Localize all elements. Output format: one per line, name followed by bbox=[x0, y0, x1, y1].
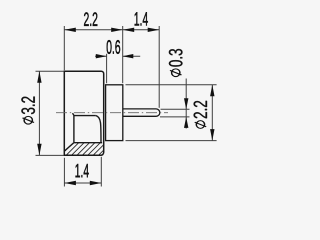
connector body (outer barrel, side view half-section) bbox=[64, 71, 103, 155]
centerline (axis) bbox=[56, 112, 168, 114]
dimension 1.4 (pin length) bbox=[123, 12, 160, 108]
insulator step cylinder bbox=[106, 85, 123, 141]
section hatching (body lower wall) bbox=[58, 142, 123, 158]
dimension 1.4 (body length, bottom) bbox=[64, 157, 101, 187]
dimension diameter 3.2 (body) bbox=[21, 71, 63, 155]
center contact pin bbox=[123, 109, 160, 116]
internal socket bore contour (sectioned lower half) bbox=[73, 113, 103, 143]
dimension diameter 0.3 (pin) bbox=[160, 49, 190, 128]
dimension 0.6 (step length) bbox=[95, 40, 140, 83]
cavity entry chamfer bbox=[65, 143, 74, 151]
dimension 2.2 (body+step length) bbox=[64, 12, 122, 83]
dimension diameter 2.2 (step) bbox=[126, 85, 217, 141]
